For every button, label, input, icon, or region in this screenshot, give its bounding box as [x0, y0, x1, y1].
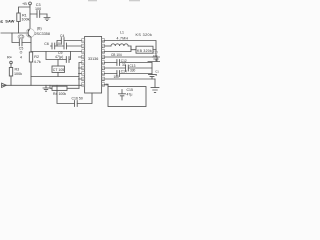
inductor L1 wire: [105, 45, 111, 47]
ground below rail: [43, 85, 49, 91]
capacitor C2 plates: [19, 39, 22, 46]
svg-text:330: 330: [130, 69, 136, 73]
capacitor C14 plates: [117, 71, 120, 77]
wire y76: [31, 63, 82, 89]
input arrow terminal: [2, 83, 7, 87]
wire base: [1, 32, 28, 34]
capacitor C6 plates: [52, 43, 55, 49]
right pin16 wire: [105, 46, 131, 52]
svg-text:100k: 100k: [22, 18, 30, 22]
svg-text:4: 4: [20, 55, 22, 59]
right pin14 wire C12: [105, 62, 152, 64]
svg-text:100k: 100k: [14, 72, 22, 76]
capacitor C7 plates: [64, 43, 67, 49]
svg-text:CB 104: CB 104: [111, 53, 122, 57]
svg-text:CT 105: CT 105: [53, 68, 64, 72]
wire R1 top: [19, 7, 31, 13]
label C2: [18, 35, 24, 39]
svg-text:4.7MH: 4.7MH: [117, 36, 129, 40]
svg-text:+B: +B: [22, 2, 27, 6]
svg-text:C4: C4: [60, 34, 65, 38]
IC U1 box: [85, 37, 102, 94]
labels: [0, 2, 159, 100]
right pin15 wire: [105, 57, 157, 62]
capacitor C15 inside: [119, 90, 126, 101]
resistor R4: [50, 85, 52, 88]
wire C3: [30, 13, 47, 15]
svg-text:KS 320k: KS 320k: [136, 33, 153, 37]
capacitor C18 plates: [149, 75, 156, 77]
svg-text:33: 33: [122, 63, 126, 67]
ground rail: [2, 84, 82, 86]
svg-text:C15: C15: [127, 88, 133, 92]
svg-text:O: O: [20, 51, 23, 55]
svg-text:100: 100: [114, 75, 120, 79]
capacitor C2 branch: [12, 33, 31, 43]
svg-text:R≡: R≡: [7, 56, 12, 60]
right pin12 wire C14: [105, 73, 152, 75]
pin numbers left: [82, 39, 84, 87]
svg-text:100: 100: [35, 7, 41, 11]
capacitor C4 plates: [61, 38, 64, 44]
svg-text:L1: L1: [120, 30, 124, 34]
svg-text:2SC3358: 2SC3358: [35, 32, 50, 36]
pin boxes left: [82, 39, 85, 87]
resistor R1: [17, 13, 20, 22]
emitter wire: [30, 37, 32, 52]
R3 terminal: [10, 61, 13, 64]
svg-text:104: 104: [56, 42, 62, 46]
resonator KS box: [136, 46, 153, 53]
svg-text:C13: C13: [130, 64, 136, 68]
pin stubs left: [79, 57, 82, 79]
svg-text:C6: C6: [44, 42, 49, 46]
capacitor C17 plates: [148, 57, 160, 62]
right pin18 wire: [105, 41, 156, 57]
svg-text:20: 20: [106, 82, 110, 86]
right bus vertical: [151, 63, 153, 80]
resistor R2: [29, 52, 32, 62]
svg-text:R4 100k: R4 100k: [53, 92, 66, 96]
pin numbers right: [102, 39, 105, 87]
pin boxes right: [101, 39, 104, 87]
ground: [44, 14, 50, 21]
capacitor C16 plates: [75, 101, 78, 107]
right pin13 wire C13: [105, 67, 152, 69]
svg-text:SAW: SAW: [5, 19, 14, 24]
capacitor C9 plates: [66, 57, 69, 63]
svg-text:4.7k: 4.7k: [34, 60, 41, 64]
right pin11 wire: [105, 78, 155, 80]
svg-text:C2: C2: [19, 35, 23, 39]
supply wire: [29, 5, 31, 29]
svg-text:47(μ): 47(μ): [55, 55, 63, 59]
wire C9 branch: [46, 52, 71, 60]
svg-text:R2: R2: [34, 55, 39, 59]
wire row3 emitter branch: [31, 51, 82, 53]
wire pin2 C6: [51, 45, 82, 47]
wire C16: [57, 85, 92, 103]
transistor Q1: [28, 29, 31, 38]
svg-text:103: 103: [153, 54, 158, 58]
top edge artifact: [88, 0, 140, 1]
inductor L1 coil: [111, 44, 128, 46]
resistor R3: [9, 68, 12, 77]
supply terminal +B: [29, 2, 32, 5]
svg-text:C16 50: C16 50: [72, 96, 83, 100]
svg-text:47μ: 47μ: [127, 93, 133, 97]
ground right: [151, 79, 159, 92]
capacitor C13 plates: [126, 65, 129, 71]
svg-text:C12: C12: [121, 59, 127, 63]
svg-text:33136: 33136: [88, 57, 98, 61]
capacitor C12 plates: [117, 60, 120, 66]
wire pin1 C4: [57, 41, 82, 47]
filter CT box: [52, 66, 65, 72]
svg-text:C14: C14: [121, 70, 127, 74]
svg-text:(B): (B): [37, 27, 42, 31]
svg-text:KB 320k: KB 320k: [137, 49, 152, 53]
pin10 wire to box: [105, 85, 108, 87]
capacitor C3: [37, 11, 40, 18]
module box: [108, 87, 146, 107]
